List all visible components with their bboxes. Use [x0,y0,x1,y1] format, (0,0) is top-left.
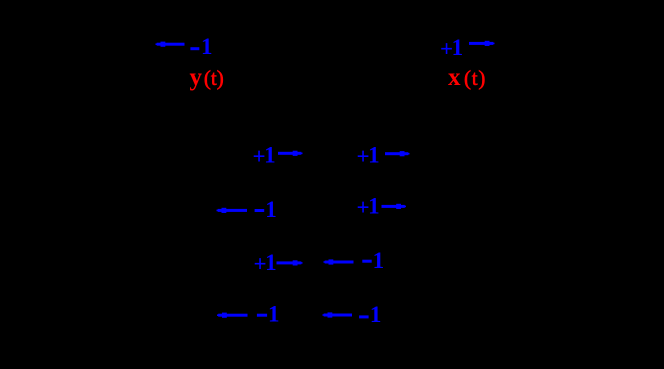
wire arrow left (row B left branch) [217,208,248,213]
wire arrow right (row A right branch) [385,151,410,156]
svg-text:1: 1 [201,34,213,59]
wire arrow left (row C right branch) [324,259,354,264]
wire arrow left (top-left output branch) [156,42,185,47]
svg-text:+1: +1 [357,194,380,221]
svg-text:1: 1 [370,302,382,327]
svg-text:1: 1 [268,302,280,327]
gain label -1 (row C right) [362,248,384,273]
gain label -1 (row B left) [255,197,277,222]
wire arrow right (row C left branch) [277,260,303,265]
gain label -1 (top left) [190,34,212,59]
wire arrow left (row D left branch) [217,313,248,318]
gain label -1 (row D left) [257,302,280,327]
svg-text:+1: +1 [253,142,276,169]
svg-text:y(t): y(t) [190,64,224,91]
gain label -1 (row D right) [359,302,381,327]
svg-text:+1: +1 [254,250,277,277]
svg-text:1: 1 [265,197,277,222]
wire arrow left (row D right branch) [323,312,353,317]
wire arrow right (row A left branch) [278,151,303,156]
svg-text:x(t): x(t) [448,64,486,91]
svg-text:1: 1 [373,248,385,273]
svg-text:+1: +1 [440,35,463,62]
wire arrow right (row B right branch) [382,204,407,209]
svg-text:+1: +1 [357,143,380,170]
wire arrow right (top-right input branch) [469,41,495,46]
